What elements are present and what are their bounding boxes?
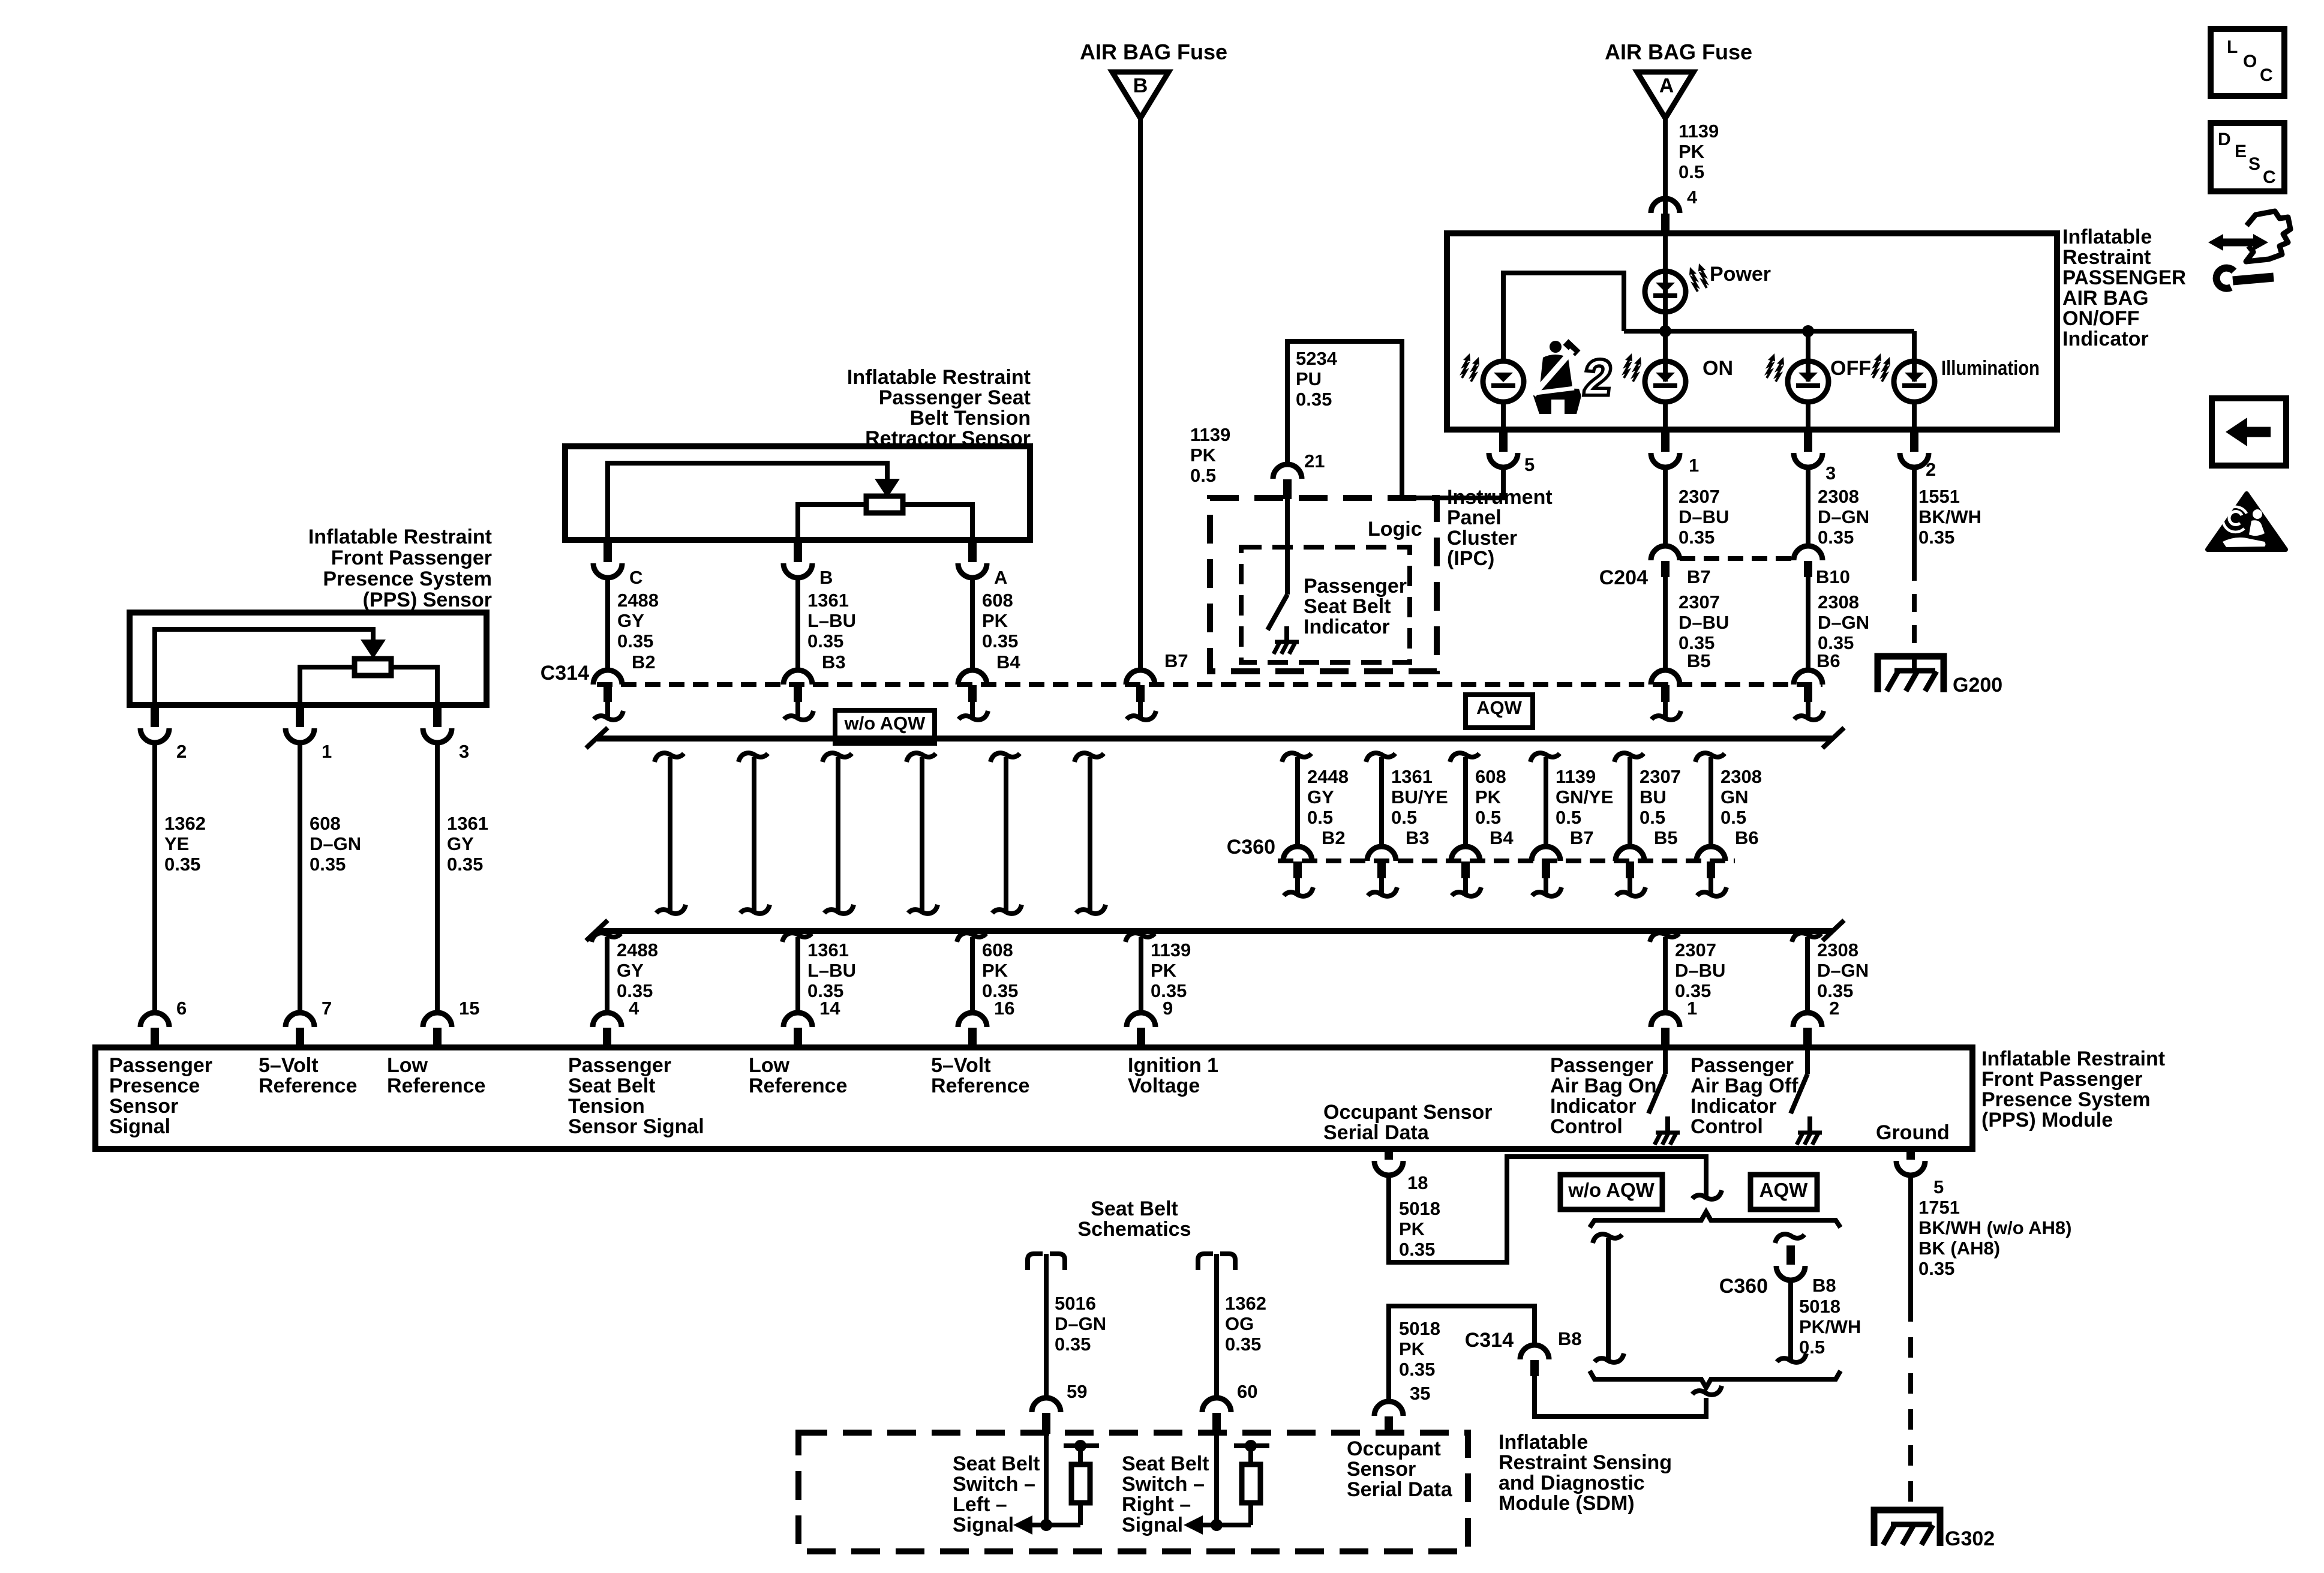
- wire 1362 hanger: [1198, 1254, 1213, 1270]
- ground G302: [1874, 1510, 1940, 1546]
- svg-text:2307: 2307: [1679, 592, 1720, 613]
- svg-text:0.35: 0.35: [447, 854, 483, 875]
- svg-text:0.35: 0.35: [1679, 527, 1715, 548]
- svg-text:Signal: Signal: [953, 1514, 1014, 1536]
- junction dot ON branch: [1659, 325, 1671, 337]
- harness wire 2: [738, 753, 768, 762]
- svg-text:608: 608: [982, 590, 1013, 611]
- svg-text:608: 608: [982, 939, 1013, 960]
- arrowhead (belt sensor wiper): [875, 479, 900, 498]
- svg-text:Reference: Reference: [259, 1074, 357, 1097]
- connector C314 row B3: [783, 670, 812, 685]
- svg-text:5018: 5018: [1399, 1318, 1440, 1339]
- svg-text:B2: B2: [1322, 827, 1346, 848]
- svg-text:0.35: 0.35: [982, 631, 1018, 652]
- wire 2308 D-GN 0.35 (C204 to C314 row): [1806, 577, 1810, 671]
- svg-text:1751: 1751: [1918, 1197, 1960, 1218]
- svg-text:B5: B5: [1654, 827, 1678, 848]
- svg-text:15: 15: [459, 998, 479, 1019]
- svg-text:6: 6: [176, 998, 187, 1019]
- svg-text:L: L: [2227, 37, 2238, 57]
- svg-text:Module (SDM): Module (SDM): [1499, 1492, 1635, 1515]
- svg-text:35: 35: [1410, 1383, 1430, 1404]
- svg-text:Inflatable Restraint: Inflatable Restraint: [308, 526, 492, 548]
- svg-text:BK/WH: BK/WH: [1918, 506, 1981, 527]
- svg-text:Schematics: Schematics: [1078, 1218, 1191, 1241]
- svg-text:BU: BU: [1640, 786, 1667, 807]
- svg-text:w/o AQW: w/o AQW: [1568, 1179, 1655, 1201]
- connector module pin 18: [1385, 1148, 1393, 1160]
- seat belt switch left wire: [1044, 1434, 1049, 1525]
- connector C360 B4: [1451, 846, 1480, 861]
- ground G200: [1878, 656, 1944, 692]
- connector pin 3 indicator: [1804, 428, 1812, 452]
- LED Illumination: [1894, 361, 1935, 402]
- svg-text:14: 14: [819, 998, 840, 1019]
- svg-text:OFF: OFF: [1830, 357, 1871, 380]
- svg-text:B10: B10: [1816, 566, 1850, 587]
- svg-text:Air Bag Off: Air Bag Off: [1691, 1074, 1798, 1097]
- wire 1362 YE: [152, 743, 157, 1013]
- svg-text:1: 1: [1689, 455, 1699, 476]
- wire 2488 to module pin 4: [591, 933, 621, 942]
- svg-text:1551: 1551: [1918, 486, 1960, 507]
- svg-text:0.35: 0.35: [1399, 1359, 1435, 1380]
- connector C314 row B4: [958, 670, 987, 685]
- wire 2307 D-BU 0.35 (C204 to C314 row): [1663, 577, 1668, 671]
- svg-text:0.5: 0.5: [1679, 161, 1704, 182]
- svg-text:Indicator: Indicator: [1691, 1095, 1777, 1118]
- fuse A symbol: [1637, 72, 1694, 118]
- harness wire 4: [906, 753, 936, 762]
- harness wire 5: [990, 753, 1020, 762]
- svg-text:5016: 5016: [1055, 1293, 1096, 1314]
- connector module pin 16: [958, 1013, 987, 1027]
- wire 1139 to module pin 9: [1125, 933, 1155, 942]
- seat belt switch right wire: [1214, 1434, 1219, 1525]
- svg-text:Instrument: Instrument: [1447, 486, 1553, 509]
- icon DESC box: [2211, 123, 2284, 191]
- wire inside PPS sensor: [155, 629, 373, 705]
- wire right leg belt sensor: [903, 505, 972, 540]
- svg-text:2488: 2488: [617, 590, 659, 611]
- wire 5018 PK 0.35 from pin 18: [1389, 1157, 1706, 1262]
- svg-text:0.35: 0.35: [1225, 1334, 1261, 1355]
- connector C204 B7: [1651, 546, 1680, 560]
- svg-text:PK: PK: [982, 960, 1008, 981]
- wire brace output to C314 B8: [1535, 1376, 1706, 1416]
- svg-text:C360: C360: [1719, 1275, 1768, 1298]
- connector C360 B6: [1697, 846, 1725, 861]
- wire 5234 PU 0.35 pin5 to IPC pin21: [1287, 341, 1503, 498]
- svg-text:B3: B3: [1406, 827, 1430, 848]
- svg-text:Front Passenger: Front Passenger: [1981, 1068, 2142, 1091]
- svg-text:1139: 1139: [1679, 121, 1719, 142]
- svg-text:B7: B7: [1687, 566, 1711, 587]
- Logic dashed box (Passenger Seat Belt Indicator): [1241, 547, 1410, 662]
- switch Passenger Air Bag Off Indicator Control: [1805, 1050, 1810, 1074]
- svg-text:1361: 1361: [447, 813, 488, 834]
- svg-text:C360: C360: [1227, 836, 1275, 858]
- svg-text:Passenger Seat: Passenger Seat: [879, 386, 1031, 409]
- svg-text:(PPS) Module: (PPS) Module: [1981, 1109, 2113, 1131]
- svg-text:0.35: 0.35: [1918, 527, 1954, 548]
- svg-text:Power: Power: [1710, 263, 1771, 286]
- svg-text:B7: B7: [1570, 827, 1594, 848]
- wire 1139 GN/YE to C360 B7: [1530, 753, 1560, 762]
- svg-text:608: 608: [310, 813, 341, 834]
- svg-text:2308: 2308: [1817, 939, 1858, 960]
- connector C314 row B7: [1126, 670, 1155, 685]
- svg-text:Tension: Tension: [568, 1095, 645, 1118]
- connector pin 7 module: [286, 1013, 314, 1027]
- connector C204 dashed line: [1680, 556, 1795, 561]
- svg-text:C: C: [629, 567, 642, 588]
- svg-text:Air Bag On: Air Bag On: [1550, 1074, 1657, 1097]
- svg-text:A: A: [1659, 74, 1674, 97]
- svg-text:9: 9: [1163, 998, 1173, 1019]
- svg-text:2307: 2307: [1640, 766, 1681, 787]
- connector C314 row B2: [593, 670, 622, 685]
- wire 2307 to module pin 1: [1650, 933, 1679, 942]
- connector SDM pin 35: [1374, 1401, 1403, 1416]
- svg-text:G200: G200: [1953, 674, 2002, 697]
- svg-text:Passenger: Passenger: [1691, 1054, 1794, 1077]
- svg-text:0.35: 0.35: [164, 854, 200, 875]
- svg-text:Sensor Signal: Sensor Signal: [568, 1115, 704, 1138]
- svg-text:Panel: Panel: [1447, 506, 1502, 529]
- svg-text:C204: C204: [1599, 566, 1648, 589]
- svg-text:1: 1: [1687, 998, 1697, 1019]
- svg-text:GN/YE: GN/YE: [1556, 786, 1613, 807]
- svg-text:0.35: 0.35: [1918, 1258, 1954, 1279]
- wire AQW branch upper: [1775, 1234, 1804, 1243]
- svg-text:Low: Low: [387, 1054, 428, 1077]
- svg-text:Left –: Left –: [953, 1493, 1007, 1516]
- svg-text:BU/YE: BU/YE: [1391, 786, 1448, 807]
- ground chassis (module on control): [1656, 1131, 1680, 1135]
- wire OFF LED branch: [1806, 331, 1810, 382]
- svg-text:5: 5: [1933, 1176, 1944, 1197]
- seat belt switch right signal arrow: [1200, 1523, 1251, 1527]
- svg-text:L–BU: L–BU: [807, 610, 856, 631]
- connector C360 B3: [1367, 846, 1396, 861]
- svg-text:1361: 1361: [807, 590, 849, 611]
- connector module pin 1: [1651, 1013, 1680, 1027]
- svg-text:BK/WH (w/o AH8): BK/WH (w/o AH8): [1918, 1217, 2071, 1238]
- connector row C360 dashed line: [1278, 858, 1735, 863]
- svg-text:Serial Data: Serial Data: [1323, 1121, 1430, 1144]
- svg-text:18: 18: [1407, 1172, 1428, 1193]
- connector C314 row B6: [1794, 670, 1822, 685]
- connector SDM pin 59: [1032, 1398, 1061, 1412]
- LED Power: [1645, 271, 1686, 312]
- connector module pin 5 ground: [1906, 1148, 1915, 1160]
- connector pin 5 indicator: [1499, 428, 1508, 452]
- svg-text:B8: B8: [1558, 1328, 1582, 1349]
- svg-text:2307: 2307: [1679, 486, 1720, 507]
- wire 1361 BU/YE to C360 B3: [1366, 753, 1395, 762]
- svg-text:1139: 1139: [1151, 939, 1191, 960]
- connector C204 B10: [1794, 546, 1822, 560]
- connector pin 1 indicator: [1661, 428, 1670, 452]
- svg-text:AQW: AQW: [1759, 1179, 1809, 1201]
- svg-text:0.5: 0.5: [1799, 1337, 1825, 1358]
- connector module pin 9: [1127, 1013, 1155, 1027]
- connector C360 B5: [1616, 846, 1644, 861]
- wire 608 PK to C360 B4: [1450, 753, 1479, 762]
- svg-text:Reference: Reference: [931, 1074, 1029, 1097]
- arrowhead (PPS sensor wiper): [361, 640, 386, 659]
- svg-text:Inflatable: Inflatable: [1499, 1431, 1588, 1454]
- wire 1551 BK/WH 0.35 (pin2 to G200): [1912, 467, 1917, 563]
- svg-text:PK: PK: [982, 610, 1008, 631]
- svg-text:Switch –: Switch –: [953, 1473, 1035, 1496]
- connector pin 2 indicator: [1910, 428, 1918, 452]
- svg-text:B5: B5: [1687, 650, 1711, 671]
- connector pin B belt sensor: [794, 539, 802, 562]
- connector module pin 14: [783, 1013, 812, 1027]
- svg-text:AQW: AQW: [1476, 697, 1523, 718]
- wire left leg PPS sensor: [300, 667, 355, 705]
- svg-text:2: 2: [176, 741, 187, 762]
- svg-text:B8: B8: [1812, 1275, 1836, 1296]
- svg-text:Indicator: Indicator: [1550, 1095, 1637, 1118]
- connector pin A belt sensor: [968, 539, 977, 562]
- svg-text:PASSENGER: PASSENGER: [2062, 266, 2186, 289]
- connector row C314 dashed line: [597, 682, 1822, 687]
- svg-text:1362: 1362: [164, 813, 206, 834]
- connector pin C belt sensor: [603, 539, 612, 562]
- svg-text:D–GN: D–GN: [1055, 1313, 1106, 1334]
- svg-text:Reference: Reference: [387, 1074, 485, 1097]
- wire 2308 GN to C360 B6: [1695, 753, 1725, 762]
- svg-text:0.5: 0.5: [1475, 807, 1501, 828]
- wire 5018 PK/WH 0.5: [1788, 1280, 1793, 1359]
- icon adjust/replace (arrow and wrench): [2208, 211, 2290, 289]
- svg-text:0.35: 0.35: [1399, 1239, 1435, 1260]
- svg-text:Front Passenger: Front Passenger: [331, 547, 492, 569]
- wire inside belt sensor: [608, 463, 887, 540]
- connector SDM pin 60: [1202, 1398, 1231, 1412]
- svg-text:608: 608: [1475, 766, 1506, 787]
- svg-text:GY: GY: [447, 833, 474, 854]
- connector pin 15 module: [423, 1013, 452, 1027]
- svg-text:60: 60: [1237, 1381, 1257, 1402]
- svg-text:5–Volt: 5–Volt: [259, 1054, 319, 1077]
- svg-text:ON/OFF: ON/OFF: [2062, 307, 2139, 330]
- connector pin 6 module: [140, 1013, 169, 1027]
- svg-text:D–BU: D–BU: [1679, 612, 1729, 633]
- resistor seat belt switch right: [1234, 1443, 1269, 1448]
- LED ON: [1645, 361, 1686, 402]
- switch Passenger Air Bag On Indicator Control: [1663, 1050, 1668, 1074]
- icon back arrow box: [2212, 398, 2286, 466]
- svg-text:21: 21: [1304, 451, 1325, 472]
- svg-text:C: C: [2263, 167, 2276, 187]
- svg-text:PK/WH: PK/WH: [1799, 1316, 1861, 1337]
- svg-text:B4: B4: [1490, 827, 1514, 848]
- wire 5016 hanger: [1028, 1254, 1043, 1270]
- svg-text:0.35: 0.35: [1818, 527, 1854, 548]
- wire w/o AQW branch: [1593, 1234, 1622, 1243]
- harness wire 6: [1074, 753, 1104, 762]
- harness wire 1: [654, 753, 684, 762]
- connector pin 3 PPS sensor: [433, 704, 442, 727]
- svg-text:OG: OG: [1225, 1313, 1254, 1334]
- LED seat belt indicator: [1483, 361, 1524, 402]
- svg-text:D–GN: D–GN: [1818, 506, 1869, 527]
- svg-text:D: D: [2218, 130, 2231, 149]
- svg-text:Seat Belt: Seat Belt: [1122, 1452, 1209, 1475]
- svg-text:Sensor: Sensor: [109, 1095, 178, 1118]
- svg-text:Passenger: Passenger: [109, 1054, 212, 1077]
- Instrument Panel Cluster dashed box: [1210, 498, 1437, 671]
- svg-text:Seat Belt: Seat Belt: [1304, 595, 1391, 618]
- resistor (PPS sensor element): [355, 659, 391, 676]
- Inflatable Restraint Front Passenger Presence System (PPS) Module box: [95, 1047, 1972, 1149]
- svg-text:5: 5: [1524, 454, 1535, 475]
- svg-text:C: C: [2260, 65, 2273, 85]
- svg-text:5234: 5234: [1296, 348, 1338, 369]
- svg-text:1362: 1362: [1225, 1293, 1266, 1314]
- svg-text:PK: PK: [1399, 1338, 1425, 1359]
- svg-text:C314: C314: [541, 662, 589, 685]
- svg-text:D–GN: D–GN: [1817, 960, 1869, 981]
- connector pin 1 PPS sensor: [296, 704, 304, 727]
- svg-text:4: 4: [1687, 187, 1698, 208]
- wire seat belt LED branch: [1503, 273, 1624, 359]
- svg-text:Control: Control: [1691, 1115, 1763, 1138]
- svg-text:Reference: Reference: [749, 1074, 847, 1097]
- svg-text:B4: B4: [996, 652, 1020, 673]
- label box AQW (upper): [1466, 695, 1533, 728]
- svg-text:0.5: 0.5: [1640, 807, 1665, 828]
- svg-text:Low: Low: [749, 1054, 790, 1077]
- connector module pin 2: [1793, 1013, 1822, 1027]
- svg-text:0.35: 0.35: [617, 631, 653, 652]
- svg-text:GY: GY: [1307, 786, 1334, 807]
- wire inside indicator: power feed: [1663, 233, 1668, 382]
- svg-text:B2: B2: [632, 652, 656, 673]
- wire 2307 BU to C360 B5: [1614, 753, 1644, 762]
- wire 1751 BK/WH to G302: [1908, 1175, 1913, 1301]
- wire 2307 D-BU 0.35 (pin1 to C204): [1663, 467, 1668, 546]
- wire 1361 GY: [435, 743, 440, 1013]
- connector C360 B7: [1532, 846, 1560, 861]
- fuse B symbol: [1112, 72, 1169, 118]
- connector pin 4 indicator: [1651, 199, 1680, 213]
- svg-text:D–BU: D–BU: [1675, 960, 1725, 981]
- wire ON LED branch: [1663, 331, 1668, 382]
- svg-text:Occupant Sensor: Occupant Sensor: [1323, 1101, 1493, 1124]
- svg-text:3: 3: [459, 741, 469, 762]
- svg-text:Switch –: Switch –: [1122, 1473, 1205, 1496]
- svg-text:B3: B3: [822, 652, 846, 673]
- svg-text:A: A: [994, 567, 1007, 588]
- wire 1362 OG: [1214, 1254, 1219, 1398]
- svg-text:B7: B7: [1164, 650, 1188, 671]
- wire right leg PPS sensor: [391, 667, 437, 705]
- seat belt switch left signal arrow: [1030, 1523, 1080, 1527]
- svg-text:E: E: [2235, 142, 2247, 161]
- svg-text:AIR BAG Fuse: AIR BAG Fuse: [1080, 40, 1227, 64]
- svg-text:4: 4: [629, 998, 639, 1019]
- svg-text:Ignition 1: Ignition 1: [1128, 1054, 1218, 1077]
- svg-text:B6: B6: [1735, 827, 1759, 848]
- svg-text:Sensor: Sensor: [1347, 1458, 1416, 1481]
- svg-text:GN: GN: [1721, 786, 1749, 807]
- svg-text:0.35: 0.35: [807, 631, 843, 652]
- svg-text:L–BU: L–BU: [807, 960, 856, 981]
- resistor (belt tension sensor element): [866, 496, 903, 513]
- wire stubs LED to box bottom: [1501, 401, 1506, 430]
- connector C314 B8: [1520, 1345, 1549, 1359]
- connector C360 B8: [1776, 1266, 1805, 1280]
- svg-text:Passenger: Passenger: [1304, 575, 1407, 598]
- svg-text:YE: YE: [164, 833, 189, 854]
- connector C360 B2: [1283, 846, 1312, 861]
- svg-text:0.5: 0.5: [1391, 807, 1417, 828]
- svg-text:PK: PK: [1190, 445, 1217, 466]
- svg-text:G302: G302: [1945, 1527, 1995, 1550]
- harness rail lower: [597, 928, 1833, 934]
- harness rail upper: [597, 736, 1833, 742]
- svg-text:Presence System: Presence System: [323, 568, 492, 590]
- svg-text:Passenger: Passenger: [1550, 1054, 1653, 1077]
- svg-text:0.35: 0.35: [1055, 1334, 1091, 1355]
- svg-text:Voltage: Voltage: [1128, 1074, 1200, 1097]
- Passenger Seat Belt Tension Retractor Sensor box: [565, 446, 1030, 540]
- svg-text:Restraint Sensing: Restraint Sensing: [1499, 1451, 1672, 1474]
- wire 5018 PK 0.35 to SDM pin 35: [1389, 1306, 1535, 1401]
- label box w/o AQW (upper): [835, 710, 935, 743]
- svg-text:2: 2: [1926, 459, 1936, 480]
- label box AQW (lower): [1750, 1175, 1817, 1209]
- icon caution airbag triangle: [2208, 494, 2286, 550]
- svg-text:D–GN: D–GN: [1818, 612, 1869, 633]
- svg-text:2308: 2308: [1818, 486, 1859, 507]
- svg-text:1361: 1361: [1391, 766, 1433, 787]
- wire 1139 PK 0.5 from fuse B: [1138, 118, 1143, 671]
- svg-text:O: O: [2243, 52, 2257, 71]
- svg-text:0.5: 0.5: [1721, 807, 1746, 828]
- svg-text:2308: 2308: [1818, 592, 1859, 613]
- svg-text:Illumination: Illumination: [1941, 357, 2040, 380]
- svg-text:AIR BAG Fuse: AIR BAG Fuse: [1605, 40, 1752, 64]
- svg-text:2308: 2308: [1721, 766, 1762, 787]
- svg-text:BK (AH8): BK (AH8): [1918, 1238, 2000, 1259]
- harness wire 3: [822, 753, 852, 762]
- wire 608 A: [970, 578, 975, 671]
- svg-text:0.35: 0.35: [310, 854, 346, 875]
- svg-text:16: 16: [994, 998, 1014, 1019]
- wire 1361 to module pin 14: [782, 933, 812, 942]
- svg-text:Inflatable: Inflatable: [2062, 226, 2152, 248]
- svg-text:Logic: Logic: [1368, 518, 1422, 541]
- svg-text:Indicator: Indicator: [1304, 616, 1390, 638]
- connector pin 2 PPS sensor: [151, 704, 159, 727]
- svg-text:PK: PK: [1399, 1218, 1425, 1239]
- switch Passenger Seat Belt Indicator: [1268, 595, 1287, 630]
- svg-text:7: 7: [322, 998, 332, 1019]
- splice brace upper: [1692, 1190, 1722, 1199]
- connector pin 21 IPC: [1273, 464, 1302, 479]
- svg-text:B: B: [819, 567, 833, 588]
- svg-text:(PPS) Sensor: (PPS) Sensor: [363, 589, 492, 611]
- svg-text:Signal: Signal: [109, 1115, 170, 1138]
- LED OFF: [1788, 361, 1828, 402]
